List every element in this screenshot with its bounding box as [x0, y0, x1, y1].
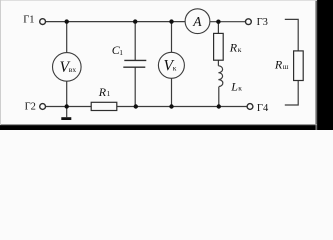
scan background [0, 0, 333, 130]
junction bottom of C1 [134, 104, 138, 108]
wire: Vвх branch upper [66, 22, 68, 53]
wire top: ammeter to Г3 [210, 21, 246, 23]
svg-text:Г1: Г1 [23, 14, 34, 25]
svg-text:A: A [192, 14, 202, 29]
ground [61, 117, 71, 120]
wire: shunt bottom lead [285, 81, 298, 106]
wire: C1 branch lower [134, 68, 136, 107]
svg-text:к: к [173, 64, 177, 73]
wire: Rк branch from top junction [217, 22, 219, 34]
junction top of Rк [216, 20, 220, 24]
junction top of C1 [133, 19, 137, 23]
wire: Rк to Lк [217, 60, 219, 66]
resistor R1 [91, 102, 117, 110]
svg-text:Г4: Г4 [257, 103, 269, 114]
junction bottom of Vк [169, 104, 173, 108]
resistor Rк [214, 33, 224, 60]
wire: Lк to bottom junction [218, 87, 220, 107]
svg-text:1: 1 [107, 89, 111, 98]
wire: Vк branch upper [171, 22, 173, 53]
wire top: Г1 to ammeter [46, 21, 186, 23]
svg-text:R: R [274, 58, 283, 72]
terminal Г1 [40, 19, 46, 25]
resistor Rш [294, 51, 304, 81]
terminal Г2 [40, 104, 46, 110]
junction top of Vк [169, 19, 173, 23]
wire bottom: Г2 to R1 [46, 106, 92, 108]
capacitor C1 [123, 60, 146, 67]
svg-text:R: R [229, 40, 238, 54]
voltmeter Vвх [53, 53, 82, 82]
svg-text:к: к [238, 84, 242, 93]
svg-text:L: L [230, 79, 238, 93]
wire bottom: R1 to Г4 [117, 106, 247, 108]
svg-text:Г2: Г2 [25, 101, 36, 112]
terminal Г4 [247, 104, 253, 110]
wire: Vвх branch lower [66, 81, 68, 106]
svg-text:R: R [98, 85, 107, 99]
junction ground node [65, 104, 69, 108]
svg-text:к: к [238, 45, 242, 54]
svg-text:1: 1 [119, 48, 123, 57]
svg-text:ш: ш [283, 62, 289, 71]
terminal Г3 [246, 19, 252, 25]
wire: C1 branch upper [134, 22, 136, 60]
wire: shunt top lead [285, 19, 298, 51]
svg-text:вх: вх [69, 65, 77, 74]
junction bottom of Lк [217, 104, 221, 108]
wire: ground stub [66, 107, 68, 118]
ammeter A [185, 9, 210, 34]
wire: Vк branch lower [171, 78, 173, 106]
svg-text:Г3: Г3 [257, 17, 268, 28]
junction top of Vвх [65, 19, 69, 23]
inductor Lк [218, 66, 222, 87]
voltmeter Vк [158, 52, 184, 78]
